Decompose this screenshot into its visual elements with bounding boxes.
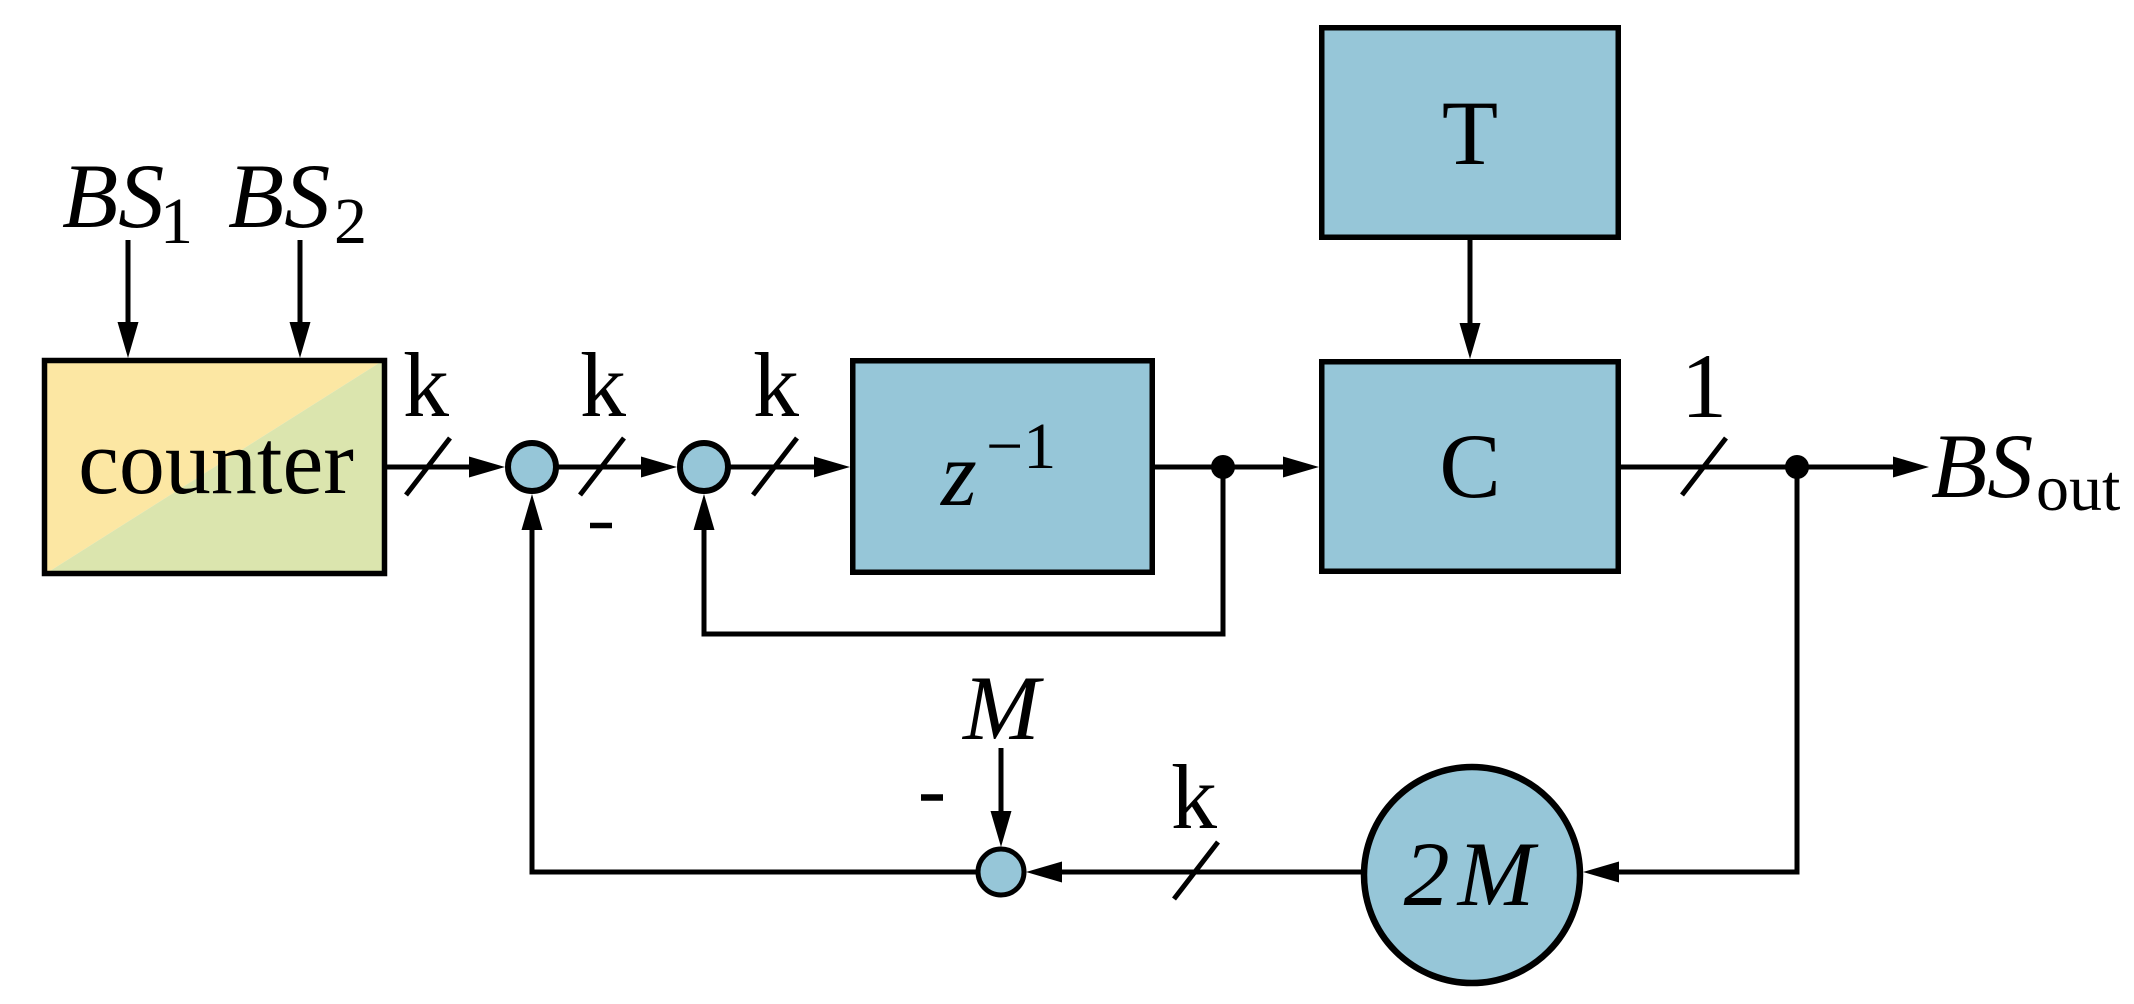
summing node S1: [508, 443, 556, 491]
svg-text:z: z: [939, 423, 977, 525]
svg-text:BS: BS: [62, 145, 164, 247]
label BSout (output signal): [1931, 415, 2120, 525]
block T (threshold): [1322, 28, 1619, 238]
wire S1 to summing node S2: [556, 465, 662, 470]
wire S2 to z-1 block: [728, 465, 838, 470]
junction dot (z-1 output node): [1211, 455, 1235, 479]
bus slash 1 (C output): [1682, 438, 1726, 495]
arrowhead from M into S3: [991, 811, 1012, 847]
arrowhead into summing node S3: [1026, 862, 1062, 883]
label BS2 (input signal): [228, 145, 367, 258]
wire M down into S3: [999, 748, 1004, 815]
block C (comparator): [1322, 362, 1619, 572]
svg-text:1: 1: [160, 185, 193, 258]
svg-text:k: k: [1171, 746, 1217, 848]
svg-text:1: 1: [1681, 335, 1727, 437]
arrowhead into z-1 block: [814, 457, 850, 478]
arrowhead up into summing node S1: [522, 494, 543, 530]
block counter (two-tone yellow/green box): [42, 358, 387, 576]
arrowhead to BSout label: [1893, 457, 1929, 478]
wire T to C: [1468, 240, 1473, 330]
wire BS1 input arrow into counter: [118, 240, 139, 358]
bus slash k (2M to S3): [1174, 842, 1218, 899]
wire S3 output back to S1: [532, 505, 976, 872]
svg-text:counter: counter: [78, 411, 354, 513]
arrowhead up into summing node S2: [694, 494, 715, 530]
junction dot (BSout node): [1785, 455, 1809, 479]
bus slash k (S1 to S2): [580, 438, 624, 495]
wire counter output to summing node S1: [387, 465, 490, 470]
wire 2M output to summing node S3: [1040, 870, 1362, 875]
arrowhead from T into C block: [1460, 323, 1481, 359]
svg-text:2M: 2M: [1404, 823, 1543, 925]
svg-text:k: k: [403, 334, 449, 436]
label BS1 (input signal): [62, 145, 193, 258]
summing node S2: [680, 443, 728, 491]
bus slash k (counter output): [406, 438, 450, 495]
svg-text:k: k: [580, 334, 626, 436]
svg-text:M: M: [961, 657, 1044, 759]
wire z-1 output to C block: [1155, 465, 1307, 470]
summing node S3: [978, 849, 1024, 895]
arrowhead into summing node S2: [641, 457, 677, 478]
wire feedback BSout node down to 2M block: [1594, 467, 1797, 872]
wire BS2 input arrow into counter: [290, 240, 311, 358]
svg-text:T: T: [1442, 82, 1498, 184]
svg-text:C: C: [1439, 415, 1500, 517]
svg-text:−1: −1: [986, 410, 1056, 483]
block z^-1 (delay register): [853, 361, 1153, 573]
label minus (M input into S3): [921, 794, 943, 801]
arrowhead into summing node S1: [469, 457, 505, 478]
wire C output to BSout: [1621, 465, 1893, 470]
block 2M (scaler circle): [1364, 767, 1580, 983]
wire feedback z-1 output to S2: [704, 467, 1223, 634]
arrowhead into C block: [1283, 457, 1319, 478]
svg-text:2: 2: [334, 185, 367, 258]
svg-text:k: k: [753, 334, 799, 436]
svg-text:out: out: [2036, 452, 2120, 525]
arrowhead into 2M block: [1583, 862, 1619, 883]
svg-text:BS: BS: [228, 145, 330, 247]
bus slash k (S2 to z-1): [753, 438, 797, 495]
label minus (feedback into S1): [590, 523, 612, 529]
svg-text:BS: BS: [1931, 415, 2033, 517]
